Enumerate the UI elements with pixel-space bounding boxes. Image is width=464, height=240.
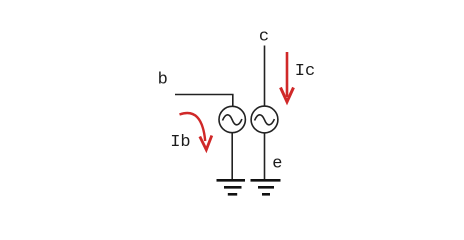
svg-text:e: e (272, 155, 282, 174)
ground right (251, 180, 281, 194)
wire c to source V2 (264, 46, 266, 107)
svg-text:Ic: Ic (295, 62, 315, 81)
wire V2 to ground (264, 133, 266, 179)
svg-text:Ib: Ib (170, 133, 190, 152)
wire b to source V1 (175, 95, 233, 107)
ac source V2 (251, 106, 278, 133)
svg-text:b: b (158, 70, 168, 89)
current arrow Ic (281, 52, 294, 102)
ground left (217, 180, 246, 194)
wire V1 to ground (231, 133, 233, 179)
svg-text:c: c (259, 28, 269, 47)
ac source V1 (219, 106, 245, 132)
current arrow Ib (180, 113, 212, 150)
